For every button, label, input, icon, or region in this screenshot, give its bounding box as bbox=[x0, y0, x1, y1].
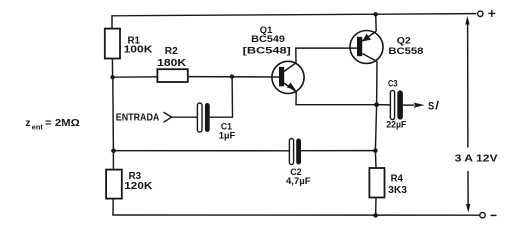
node output arrow bbox=[414, 103, 425, 108]
wire input to C1 bbox=[172, 116, 198, 118]
label 3K3 bbox=[388, 185, 407, 196]
svg-text:BC558: BC558 bbox=[388, 46, 423, 57]
label 22µF bbox=[386, 120, 406, 131]
wire supply dimension line lower with down arrow bbox=[466, 171, 470, 213]
svg-text:Q2: Q2 bbox=[397, 36, 411, 47]
capacitor C2 plate (right, solid) bbox=[296, 139, 301, 165]
resistor R3 bbox=[106, 170, 122, 199]
wire C2 to R4 node bbox=[301, 150, 375, 152]
label BC558 bbox=[388, 46, 423, 57]
wire C1 to base junction bbox=[210, 77, 233, 117]
svg-text:BC549: BC549 bbox=[251, 34, 285, 45]
node junction R1/R2/left column bbox=[110, 75, 114, 79]
capacitor C1 plate (right, solid) bbox=[205, 103, 210, 132]
svg-text:= 2MΩ: = 2MΩ bbox=[45, 118, 80, 129]
label 120K bbox=[124, 181, 153, 192]
svg-text:22µF: 22µF bbox=[386, 120, 406, 131]
capacitor C3 plate (right, solid) bbox=[397, 90, 403, 119]
label Zent = 2MΩ bbox=[26, 118, 80, 131]
wire R4 top lead bbox=[374, 151, 377, 168]
label Q1 bbox=[260, 25, 273, 36]
node input chevron bbox=[164, 112, 172, 122]
label 3 A 12V bbox=[455, 153, 498, 164]
svg-text:120K: 120K bbox=[124, 181, 153, 192]
wire R2 to Q1 base bbox=[188, 76, 279, 78]
wire top rail (V+) bbox=[112, 14, 477, 29]
label R4 bbox=[391, 174, 404, 185]
node junction R4 top bbox=[373, 148, 378, 153]
label C2 bbox=[290, 167, 302, 178]
label Q2 bbox=[397, 36, 411, 47]
resistor R2 bbox=[157, 69, 187, 82]
node junction C1/R2 wire bbox=[230, 74, 234, 78]
label C3 bbox=[388, 79, 398, 90]
label S/ output bbox=[428, 100, 438, 112]
capacitor C1 plate (left, +) bbox=[197, 103, 202, 132]
svg-text:100K: 100K bbox=[124, 44, 154, 55]
label BC549 bbox=[251, 34, 285, 45]
wire left column (junction down to mid rail) bbox=[112, 77, 115, 150]
svg-text:S: S bbox=[428, 100, 434, 112]
terminal - (open circle) bbox=[480, 213, 485, 218]
label (BC548) bbox=[243, 45, 291, 56]
wire R3 bottom lead to bottom rail bbox=[113, 199, 482, 216]
wire base row: junction to R2 bbox=[113, 76, 158, 78]
svg-text:[BC548]: [BC548] bbox=[243, 45, 291, 56]
label 100K bbox=[124, 44, 154, 55]
capacitor C3 plate (left, +) bbox=[390, 90, 394, 119]
transistor Q2 bbox=[350, 31, 383, 64]
wire output node down to mid rail junction bbox=[375, 105, 376, 151]
node junction bottom rail / R4 bbox=[373, 213, 378, 218]
wire supply dimension line upper with up arrow bbox=[465, 16, 469, 148]
wire Q2 collector down to output node bbox=[376, 62, 378, 105]
node junction left column / mid rail bbox=[111, 148, 116, 153]
label C1 bbox=[221, 121, 233, 132]
node junction output bbox=[374, 102, 379, 107]
wire mid rail (feedback row) bbox=[113, 150, 289, 152]
svg-text:3K3: 3K3 bbox=[388, 185, 407, 196]
svg-text:ENTRADA: ENTRADA bbox=[116, 113, 160, 124]
svg-text:z: z bbox=[26, 118, 31, 129]
wire R4 bottom lead bbox=[375, 198, 377, 216]
label + sign bbox=[488, 10, 495, 17]
svg-text:R4: R4 bbox=[391, 174, 404, 185]
label ENTRADA bbox=[116, 113, 160, 124]
svg-text:R2: R2 bbox=[165, 46, 178, 57]
terminal + (open circle) bbox=[478, 11, 483, 16]
resistor R1 bbox=[105, 29, 120, 59]
node junction on top rail (Q2 emitter) bbox=[373, 12, 377, 16]
wire R3 top lead bbox=[112, 151, 114, 170]
label - sign bbox=[491, 214, 497, 216]
svg-text:180K: 180K bbox=[157, 58, 187, 69]
wire R1 bottom lead bbox=[111, 59, 113, 78]
wire output node to C3 bbox=[377, 104, 391, 106]
svg-text:ent: ent bbox=[32, 122, 44, 131]
label 4,7µF bbox=[286, 176, 311, 187]
wire Q1 collector to Q2 base bbox=[296, 48, 357, 63]
label 180K bbox=[157, 58, 187, 69]
wire Q1 emitter down and right bbox=[296, 92, 377, 105]
svg-text:1µF: 1µF bbox=[219, 130, 236, 141]
label R2 bbox=[165, 46, 178, 57]
svg-text:4,7µF: 4,7µF bbox=[286, 176, 311, 187]
wire C3 to output arrow bbox=[403, 104, 415, 106]
wire Q2 emitter to top rail bbox=[375, 14, 378, 31]
resistor R4 bbox=[369, 168, 384, 198]
capacitor C2 plate (left, +) bbox=[289, 139, 293, 165]
label 1µF bbox=[219, 130, 236, 141]
svg-text:3 A 12V: 3 A 12V bbox=[455, 153, 498, 164]
label R1 bbox=[128, 35, 141, 46]
svg-text:C3: C3 bbox=[388, 79, 398, 90]
transistor Q1 bbox=[272, 61, 304, 93]
label R3 bbox=[129, 171, 142, 182]
